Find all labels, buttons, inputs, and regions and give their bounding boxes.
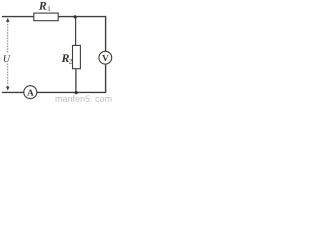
- voltmeter V: [99, 51, 112, 64]
- ammeter A: [24, 86, 37, 99]
- wire: right vertical, voltmeter to bottom corner: [37, 64, 106, 92]
- label U: [4, 55, 11, 62]
- voltage arrow U: lower shaft (dashed): [7, 64, 9, 88]
- wire: top-left horizontal segment: [2, 16, 34, 18]
- voltage arrow U: down arrowhead: [6, 87, 10, 91]
- wire: R2 branch upper vertical: [75, 17, 77, 46]
- node: top junction dot: [74, 15, 77, 18]
- label R1: [39, 2, 46, 10]
- resistor R2: [73, 45, 81, 68]
- resistor R1: [34, 13, 58, 21]
- node: bottom junction dot: [75, 91, 78, 94]
- label R2: [62, 54, 69, 62]
- wire: top-middle horizontal segment: [58, 17, 105, 52]
- wire: bottom-left horizontal segment: [2, 91, 24, 93]
- voltage arrow U: up arrowhead: [6, 18, 10, 22]
- watermark: [56, 95, 112, 102]
- voltage arrow U: upper shaft (dashed): [7, 21, 9, 52]
- wire: R2 branch lower vertical: [75, 69, 77, 93]
